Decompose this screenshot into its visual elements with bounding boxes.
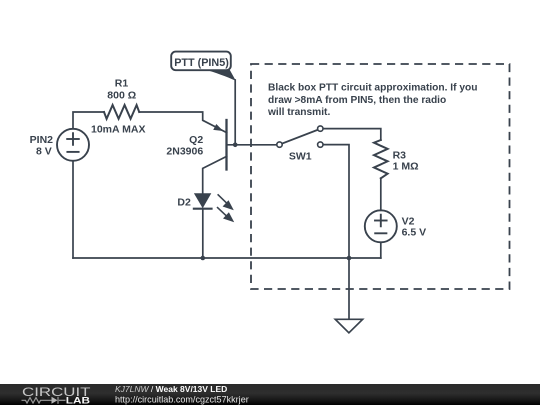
- svg-text:Black box PTT circuit approxim: Black box PTT circuit approximation. If …: [268, 82, 477, 93]
- svg-text:8 V: 8 V: [36, 146, 52, 158]
- svg-text:R1: R1: [115, 78, 129, 90]
- svg-text:PIN2: PIN2: [30, 134, 54, 146]
- svg-text:will transmit.: will transmit.: [267, 107, 330, 118]
- svg-text:10mA MAX: 10mA MAX: [91, 124, 145, 136]
- svg-text:SW1: SW1: [289, 151, 312, 163]
- svg-text:800 Ω: 800 Ω: [107, 89, 136, 101]
- svg-text:KJ7LNW / Weak 8V/13V LED: KJ7LNW / Weak 8V/13V LED: [115, 384, 227, 394]
- svg-text:PTT (PIN5): PTT (PIN5): [174, 57, 229, 69]
- svg-text:D2: D2: [177, 196, 191, 208]
- svg-text:http://circuitlab.com/cgzct57k: http://circuitlab.com/cgzct57kkrjer: [115, 394, 249, 404]
- svg-text:2N3906: 2N3906: [166, 146, 203, 158]
- svg-text:V2: V2: [402, 215, 415, 227]
- svg-text:Q2: Q2: [189, 134, 203, 146]
- svg-text:LAB: LAB: [66, 395, 91, 405]
- svg-text:draw >8mA from PIN5, then the: draw >8mA from PIN5, then the radio: [268, 95, 446, 106]
- svg-text:1 MΩ: 1 MΩ: [393, 161, 419, 173]
- svg-text:6.5 V: 6.5 V: [402, 227, 427, 239]
